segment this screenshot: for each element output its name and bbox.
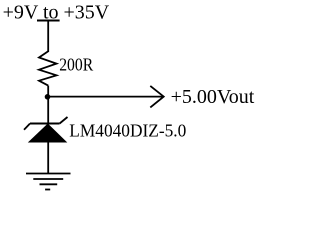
- ground line 3: [40, 183, 58, 185]
- wire node to output arrow: [48, 96, 163, 98]
- zener cathode right tail: [60, 117, 68, 124]
- svg-text:LM4040DIZ-5.0: LM4040DIZ-5.0: [69, 121, 186, 141]
- supply terminal bar: [37, 20, 60, 22]
- ground line 1: [26, 173, 71, 175]
- output arrowhead: [150, 86, 163, 108]
- wire supply to resistor: [47, 21, 49, 53]
- wire zener to ground: [47, 142, 49, 174]
- ground line 4: [45, 189, 50, 191]
- wire resistor to zener: [47, 86, 49, 124]
- svg-text:200R: 200R: [59, 55, 93, 75]
- ground line 2: [33, 178, 63, 180]
- zener anode triangle: [28, 124, 68, 143]
- zener diode D1 cathode bar: [30, 123, 60, 125]
- resistor R1 200R: [39, 51, 57, 85]
- node junction dot: [45, 94, 51, 100]
- zener cathode left tail: [24, 124, 30, 130]
- svg-text:+5.00Vout: +5.00Vout: [171, 86, 255, 108]
